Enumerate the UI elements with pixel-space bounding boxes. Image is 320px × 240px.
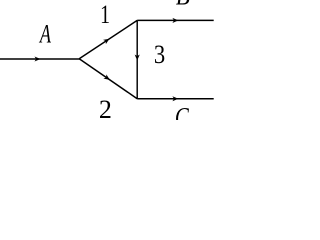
svg-text:C: C bbox=[175, 104, 189, 120]
arrowhead on outgoing line C bbox=[172, 96, 178, 101]
wire: propagator 1 (upper diagonal) bbox=[79, 20, 137, 58]
svg-text:3: 3 bbox=[154, 41, 165, 70]
arrowhead on propagator 2 bbox=[103, 74, 109, 80]
arrowhead on propagator 3 bbox=[135, 55, 140, 61]
arrowhead on incoming line A bbox=[35, 56, 41, 61]
wire: outgoing line B bbox=[137, 19, 214, 21]
wire: propagator 2 (lower diagonal) bbox=[79, 59, 137, 99]
wire: incoming line A bbox=[0, 58, 80, 60]
wire: propagator 3 (vertical) bbox=[136, 20, 138, 98]
arrowhead on outgoing line B bbox=[172, 18, 178, 23]
svg-text:A: A bbox=[38, 19, 51, 48]
svg-text:B: B bbox=[176, 0, 190, 11]
svg-text:2: 2 bbox=[99, 95, 112, 120]
wire: outgoing line C bbox=[137, 98, 214, 100]
arrowhead on propagator 1 bbox=[103, 39, 109, 44]
svg-text:1: 1 bbox=[100, 0, 110, 28]
